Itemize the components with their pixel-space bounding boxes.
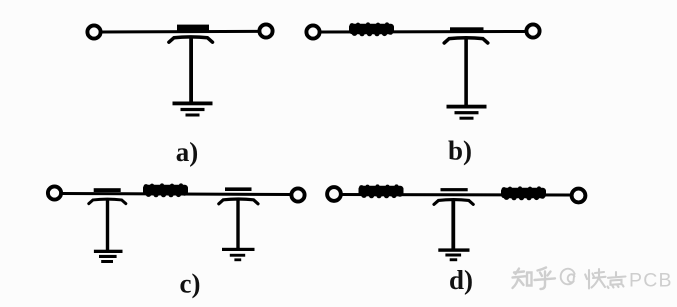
wire: c horizontal [61,194,292,195]
wire: b cap stem [464,39,468,105]
ground: c right [222,248,255,261]
watermark: 知乎 @快点PCB [513,268,626,290]
svg-text:b): b) [448,136,472,166]
terminal: b left port [306,25,319,38]
watermark glyph 快 [585,269,605,289]
wire: a horizontal [101,30,260,34]
watermark text PCB [629,270,673,292]
terminal: d right port [572,189,586,203]
svg-text:d): d) [449,265,473,295]
label b) [448,136,472,166]
wire: d cap stem [451,201,455,249]
wire: b horizontal [320,30,528,34]
terminal: c right port [291,188,304,201]
terminal: a right port [259,24,272,37]
capacitor: c left shunt cap [89,188,126,203]
label d) [449,265,473,295]
terminal: c left port [48,186,61,199]
wire: a cap stem [189,38,193,103]
svg-text:c): c) [180,269,201,299]
inductor: c series coil [143,183,188,197]
label c) [180,269,201,299]
terminal: d left port [327,187,341,201]
svg-text:a): a) [176,137,199,167]
svg-text:PCB: PCB [629,270,673,292]
ground: c left [94,250,123,263]
label a) [176,137,199,167]
wire: c right cap stem [236,200,239,249]
ground: d [438,248,469,261]
wire: d horizontal [341,193,572,197]
wire: c left cap stem [106,200,109,251]
watermark glyph 知 [513,269,532,289]
inductor: d right series coil [501,186,546,200]
capacitor: c right shunt cap [219,187,258,203]
watermark glyph 乎 [535,268,556,290]
inductor: b series coil [349,22,394,36]
watermark glyph @ [561,269,575,285]
terminal: b right port [526,24,539,37]
ground: a [173,102,213,117]
capacitor: a shunt feedthrough cap [169,25,213,43]
ground: b [447,105,487,120]
capacitor: d shunt cap [434,188,473,204]
terminal: a left port [87,25,100,38]
inductor: d left series coil [359,184,404,198]
capacitor: b shunt cap [444,27,488,43]
watermark glyph 点 [608,272,626,288]
